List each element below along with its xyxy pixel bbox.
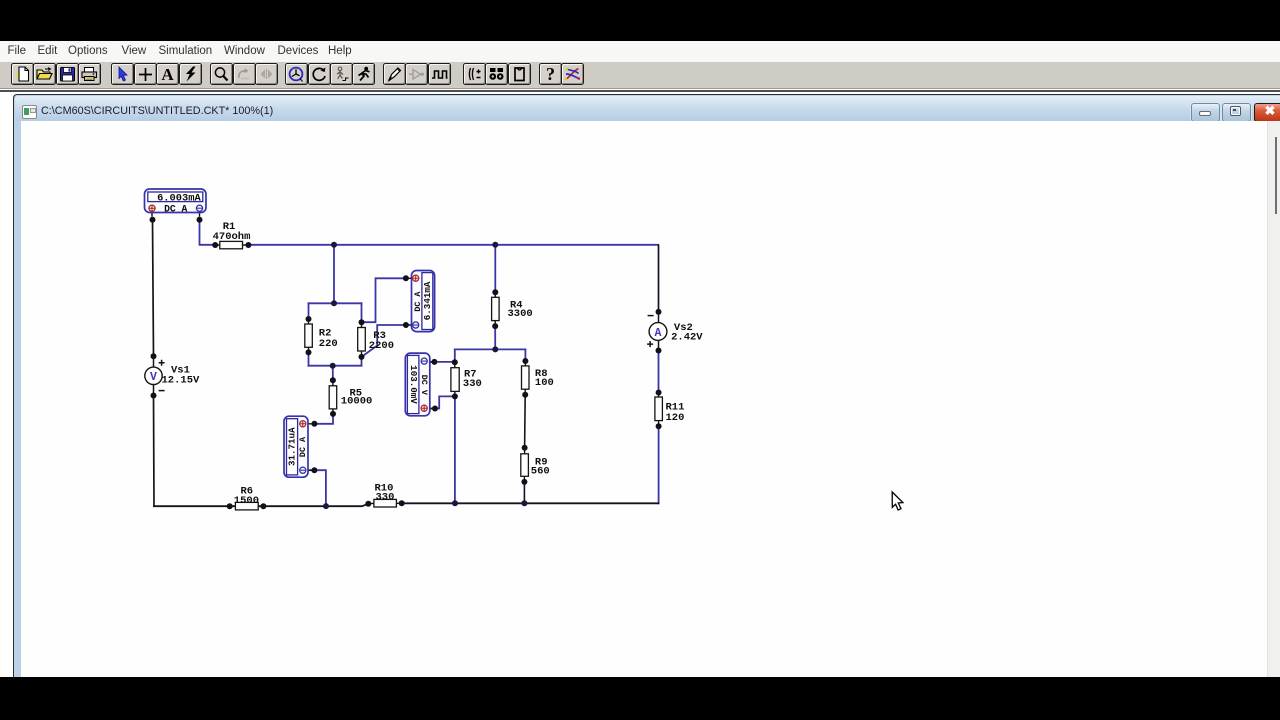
junction node (495.3,244.8) bbox=[492, 242, 498, 248]
svg-text:120: 120 bbox=[666, 412, 685, 424]
svg-text:103.0mV: 103.0mV bbox=[408, 365, 419, 404]
resistor R2 bbox=[305, 319, 338, 352]
wire meter M1 to R1 bbox=[200, 220, 216, 245]
svg-text:2200: 2200 bbox=[369, 340, 394, 352]
resistor R11 bbox=[655, 393, 685, 427]
wire R5 branch bbox=[314, 366, 333, 424]
junction node (525.4,361) bbox=[522, 358, 528, 364]
MDI client top sunken line bbox=[0, 90, 1280, 92]
svg-text:1500: 1500 bbox=[234, 495, 259, 507]
junction node (361.5,356.9) bbox=[359, 354, 365, 360]
ammeter M3 DC A 31.71uA rotated bbox=[284, 416, 314, 477]
junction node (361.5,322.2) bbox=[359, 319, 365, 325]
resistor R6 bbox=[230, 486, 264, 510]
junction node (658.6,392.5) bbox=[656, 390, 662, 396]
wire Vs2 to R11 bbox=[658, 351, 660, 393]
wire mid branch from top rail bbox=[333, 245, 335, 303]
junction node (435,408.5) bbox=[432, 406, 438, 412]
junction node (308.5,352.4) bbox=[306, 349, 312, 355]
svg-text:DC A: DC A bbox=[298, 436, 308, 457]
menu bar bbox=[0, 41, 1280, 62]
junction node (658.5,350.5) bbox=[656, 348, 662, 354]
wire top right vertical black bbox=[658, 245, 660, 312]
junction node (525.2,394.8) bbox=[522, 392, 528, 398]
wire R8 to R9 black bbox=[524, 395, 527, 448]
wire R2 R3 rect bottom bbox=[309, 365, 362, 367]
junction node (524.4,481.9) bbox=[521, 479, 527, 485]
scrollbar bbox=[1267, 121, 1280, 677]
junction node (314.4,470.2) bbox=[311, 467, 317, 473]
wire R4 branch bbox=[494, 245, 496, 350]
junction node (332.7,365.7) bbox=[330, 363, 336, 369]
wire mid horizontal rail bbox=[455, 348, 526, 350]
junction node (454.9,396.4) bbox=[452, 393, 458, 399]
voltmeter M2 DC V 103.0mV rotated bbox=[405, 353, 435, 416]
junction node (333,413.9) bbox=[330, 411, 336, 417]
wire R7 leg bbox=[454, 349, 456, 503]
junction node (495.3,349.4) bbox=[492, 346, 498, 352]
resistor R3 bbox=[358, 322, 394, 357]
ammeter M4 DC A 6.341mA rotated bbox=[406, 271, 435, 332]
junction node (153.5,356.2) bbox=[151, 353, 157, 359]
svg-text:470ohm: 470ohm bbox=[213, 231, 251, 243]
ammeter M1 DC A 6.003mA bbox=[145, 189, 207, 217]
top black band bbox=[0, 0, 1280, 41]
wire meter M3 minus to bottom rail bbox=[308, 470, 326, 506]
wire top rail bbox=[248, 244, 658, 246]
svg-text:V: V bbox=[150, 371, 157, 384]
svg-text:DC A: DC A bbox=[164, 204, 187, 215]
svg-text:560: 560 bbox=[531, 466, 550, 478]
source Vs1 12.15V bbox=[145, 356, 200, 395]
junction node (524.4,503.3) bbox=[521, 500, 527, 506]
junction node (405.9,325) bbox=[403, 322, 409, 328]
svg-text:3300: 3300 bbox=[508, 308, 533, 320]
svg-text:A: A bbox=[655, 327, 662, 340]
resistor R7 bbox=[451, 362, 482, 396]
wire bottom rail left black with jog bbox=[154, 504, 368, 506]
junction node (314.4,423.8) bbox=[311, 421, 317, 427]
junction node (455,503.3) bbox=[452, 500, 458, 506]
junction node (332.9,380.3) bbox=[330, 377, 336, 383]
wire R9 to bottom rail black bbox=[523, 482, 525, 503]
junction node (434.4,361.9) bbox=[431, 359, 437, 365]
junction node (405.9,278.3) bbox=[403, 275, 409, 281]
resistor R8 bbox=[522, 361, 554, 395]
junction node (454.8,362.3) bbox=[452, 359, 458, 365]
svg-text:6.341mA: 6.341mA bbox=[422, 281, 433, 320]
title icon bbox=[22, 105, 37, 119]
wire meter M2 bottom to R7 bottom bbox=[430, 396, 455, 408]
junction node (658.6,426.2) bbox=[656, 423, 662, 429]
junction node (524.6,447.8) bbox=[522, 445, 528, 451]
wire bottom rail right black bbox=[402, 502, 659, 504]
junction node (229.7,506.2) bbox=[227, 503, 233, 509]
junction node (263.4,506.3) bbox=[260, 503, 266, 509]
wire meter M2 top to R7 bbox=[430, 361, 455, 363]
resistor R5 bbox=[329, 380, 372, 414]
junction node (215.2,245) bbox=[212, 242, 218, 248]
svg-text:DC V: DC V bbox=[419, 375, 429, 396]
content white area bbox=[21, 121, 1268, 677]
junction node (368.3,503.8) bbox=[365, 501, 371, 507]
svg-text:2.42V: 2.42V bbox=[671, 332, 703, 344]
junction node (334,244.8) bbox=[331, 242, 337, 248]
junction node (495.3,292.2) bbox=[492, 289, 498, 295]
svg-text:330: 330 bbox=[376, 492, 395, 504]
mouse cursor bbox=[892, 492, 903, 510]
resistor R10 bbox=[368, 483, 401, 507]
wire R3 to meter M4 plus bbox=[362, 278, 406, 322]
wire R8 leg bbox=[524, 349, 526, 361]
junction node (152.5,219.8) bbox=[150, 217, 156, 223]
caption buttons bbox=[1191, 103, 1221, 122]
svg-text:100: 100 bbox=[535, 377, 554, 389]
wire meter M4 minus to R3 bottom bbox=[362, 325, 406, 357]
svg-text:330: 330 bbox=[463, 378, 482, 390]
wire R2 R3 rect top bbox=[309, 302, 362, 304]
svg-text:31.71uA: 31.71uA bbox=[287, 427, 298, 466]
resistor R4 bbox=[492, 292, 533, 326]
junction node (658.5,311.9) bbox=[656, 309, 662, 315]
junction node (334,303.3) bbox=[331, 300, 337, 306]
source Vs2 2.42V bbox=[647, 312, 703, 351]
toolbar buttons bbox=[11, 63, 34, 85]
junction node (153.5,395.5) bbox=[151, 393, 157, 399]
resistor R9 bbox=[521, 448, 550, 482]
title bar gradient bbox=[15, 96, 1280, 122]
svg-text:10000: 10000 bbox=[341, 396, 373, 408]
resistor R1 bbox=[213, 221, 251, 249]
junction node (401.7,503.3) bbox=[399, 500, 405, 506]
svg-text:12.15V: 12.15V bbox=[162, 374, 201, 386]
junction node (308.5,319) bbox=[306, 316, 312, 322]
junction node (248.4,245) bbox=[245, 242, 251, 248]
title text bbox=[41, 105, 273, 117]
wire R11 to bottom corner bbox=[657, 426, 660, 503]
junction node (199.5,219.8) bbox=[197, 217, 203, 223]
junction node (326,506.1) bbox=[323, 503, 329, 509]
bottom black band bbox=[0, 677, 1280, 720]
svg-text:DC A: DC A bbox=[413, 291, 423, 312]
wire left rail black bbox=[153, 220, 155, 506]
wire R3 right leg bbox=[361, 303, 363, 365]
svg-text:220: 220 bbox=[319, 338, 338, 350]
toolbar band bbox=[0, 62, 1280, 89]
wire R2 left leg bbox=[308, 303, 310, 365]
junction node (495.2,326.1) bbox=[492, 323, 498, 329]
